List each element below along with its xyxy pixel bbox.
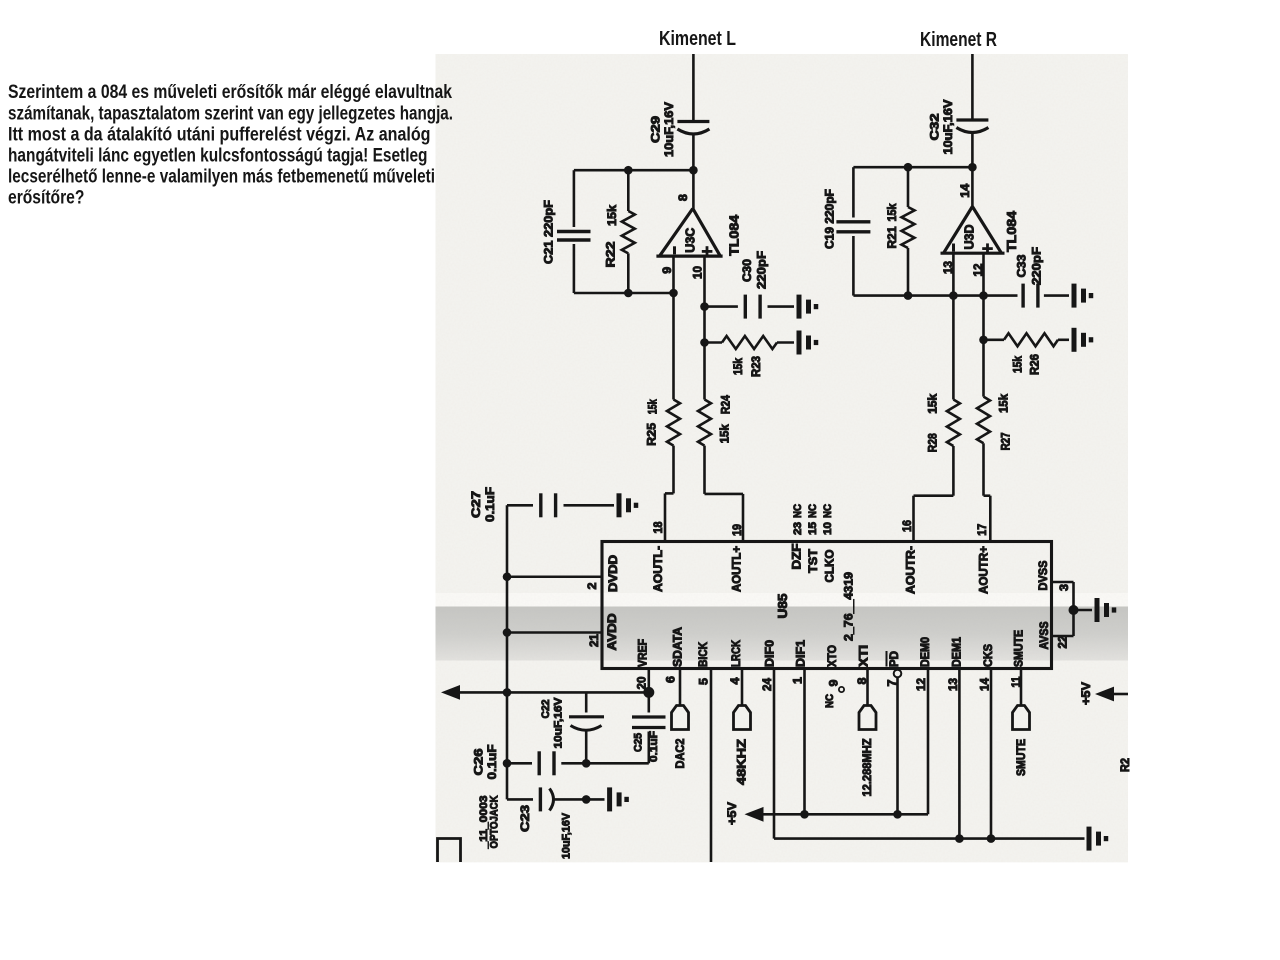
- svg-text:XTI: XTI: [859, 645, 871, 667]
- svg-text:15k: 15k: [926, 393, 940, 413]
- svg-text:+5V: +5V: [1079, 682, 1093, 705]
- svg-text:R26: R26: [1027, 354, 1041, 375]
- svg-text:24: 24: [760, 678, 774, 691]
- svg-text:TL084: TL084: [727, 214, 742, 256]
- svg-text:AVSS: AVSS: [1039, 621, 1051, 649]
- svg-text:12: 12: [914, 678, 928, 691]
- svg-text:C19 220pF: C19 220pF: [822, 189, 836, 249]
- svg-text:R23: R23: [749, 356, 763, 377]
- svg-text:AOUTR-: AOUTR-: [905, 546, 917, 594]
- svg-text:U85: U85: [776, 593, 790, 618]
- svg-text:_11_0003: _11_0003: [478, 796, 490, 850]
- svg-text:TST: TST: [808, 549, 820, 573]
- svg-text:0.1uF: 0.1uF: [485, 745, 499, 780]
- svg-text:DVDD: DVDD: [608, 555, 620, 592]
- svg-text:15k: 15k: [885, 203, 899, 221]
- svg-text:0.1uF: 0.1uF: [483, 487, 497, 522]
- svg-text:Kimenet L: Kimenet L: [659, 28, 736, 50]
- svg-text:220pF: 220pF: [754, 251, 768, 289]
- svg-text:10uF,16V: 10uF,16V: [662, 102, 676, 157]
- svg-text:15: 15: [807, 522, 819, 535]
- svg-text:21: 21: [587, 634, 601, 647]
- svg-text:10: 10: [690, 266, 704, 279]
- svg-text:9: 9: [826, 679, 840, 686]
- svg-text:C22: C22: [540, 700, 552, 719]
- svg-text:6: 6: [663, 676, 677, 683]
- svg-text:DEM1: DEM1: [952, 636, 964, 667]
- svg-text:VREF: VREF: [638, 639, 650, 667]
- svg-text:DIF1: DIF1: [796, 639, 808, 667]
- svg-text:lecserélhető lenne-e valamilye: lecserélhető lenne-e valamilyen más fetb…: [8, 167, 435, 188]
- svg-text:20: 20: [634, 676, 648, 689]
- svg-text:erősítőre?: erősítőre?: [8, 188, 84, 209]
- svg-text:15k: 15k: [605, 205, 619, 226]
- svg-text:OPTOJACK: OPTOJACK: [489, 795, 501, 848]
- svg-text:2: 2: [585, 582, 599, 589]
- svg-text:23: 23: [792, 522, 804, 535]
- svg-text:C32: C32: [927, 113, 941, 140]
- svg-text:SMUTE: SMUTE: [1014, 630, 1026, 667]
- svg-text:TL084: TL084: [1004, 210, 1019, 252]
- svg-text:19: 19: [730, 524, 744, 536]
- svg-text:3: 3: [1057, 584, 1071, 591]
- svg-text:R25: R25: [644, 423, 658, 446]
- svg-text:R28: R28: [926, 433, 940, 452]
- svg-text:PD: PD: [889, 651, 901, 667]
- svg-text:SDATA: SDATA: [673, 627, 685, 667]
- svg-text:10uF,16V: 10uF,16V: [553, 697, 565, 749]
- svg-text:CLKO: CLKO: [825, 549, 837, 582]
- svg-text:220pF: 220pF: [1029, 247, 1043, 285]
- svg-text:14: 14: [958, 183, 972, 197]
- svg-text:C30: C30: [740, 259, 754, 282]
- svg-text:NC: NC: [822, 504, 834, 518]
- svg-text:5: 5: [696, 678, 710, 685]
- svg-text:9: 9: [660, 266, 674, 273]
- svg-text:0.1uF: 0.1uF: [648, 731, 660, 762]
- svg-text:15k: 15k: [731, 358, 745, 375]
- svg-text:15k: 15k: [645, 399, 659, 414]
- svg-text:Szerintem a 084 es műveleti er: Szerintem a 084 es műveleti erősítők már…: [8, 82, 452, 103]
- svg-text:8: 8: [676, 194, 690, 201]
- svg-text:14: 14: [977, 678, 991, 691]
- svg-text:Itt most a da átalakító utáni: Itt most a da átalakító utáni pufferelés…: [8, 125, 431, 146]
- svg-text:C23: C23: [518, 805, 532, 832]
- svg-text:15k: 15k: [996, 394, 1010, 413]
- svg-text:C25: C25: [633, 733, 645, 752]
- svg-text:AOUTR+: AOUTR+: [978, 546, 990, 594]
- svg-text:10uF,16V: 10uF,16V: [560, 812, 572, 859]
- svg-text:10uF,16V: 10uF,16V: [941, 100, 955, 155]
- svg-text:DIF0: DIF0: [765, 640, 777, 667]
- svg-text:13: 13: [946, 678, 960, 691]
- svg-text:LRCK: LRCK: [731, 639, 743, 667]
- svg-text:16: 16: [900, 520, 914, 532]
- svg-text:U3D: U3D: [962, 225, 977, 250]
- svg-text:C26: C26: [471, 748, 485, 775]
- svg-text:15k: 15k: [1010, 356, 1024, 373]
- svg-text:C33: C33: [1014, 254, 1028, 277]
- svg-text:NC: NC: [792, 504, 804, 518]
- svg-text:+5V: +5V: [725, 802, 739, 825]
- svg-text:NC: NC: [824, 694, 836, 708]
- svg-text:BICK: BICK: [698, 641, 710, 667]
- svg-text:DZF: DZF: [792, 544, 804, 570]
- svg-text:17: 17: [975, 524, 989, 536]
- svg-text:15k: 15k: [717, 424, 731, 443]
- svg-text:1: 1: [790, 677, 804, 684]
- svg-text:R24: R24: [719, 395, 733, 414]
- svg-text:2_76__4319: 2_76__4319: [844, 572, 856, 641]
- svg-text:AVDD: AVDD: [607, 614, 619, 651]
- svg-text:hangátviteli lánc egyetlen kul: hangátviteli lánc egyetlen kulcsfontossá…: [8, 146, 428, 167]
- svg-text:DVSS: DVSS: [1038, 560, 1050, 590]
- svg-text:SMUTE: SMUTE: [1014, 739, 1028, 776]
- svg-text:számítanak, tapasztalatom szer: számítanak, tapasztalatom szerint van eg…: [8, 104, 453, 125]
- svg-text:U3C: U3C: [683, 227, 698, 253]
- svg-text:R2: R2: [1118, 758, 1132, 772]
- svg-text:NC: NC: [807, 504, 819, 518]
- svg-text:AOUTL+: AOUTL+: [731, 546, 743, 592]
- svg-text:18: 18: [651, 521, 665, 533]
- svg-text:XTO: XTO: [827, 645, 839, 667]
- svg-text:12.288MHZ: 12.288MHZ: [860, 739, 874, 797]
- svg-text:R22: R22: [603, 241, 617, 267]
- svg-text:R21: R21: [885, 226, 899, 248]
- svg-text:C27: C27: [469, 491, 483, 518]
- svg-text:C21 220pF: C21 220pF: [541, 200, 555, 264]
- svg-text:Kimenet R: Kimenet R: [920, 29, 997, 51]
- svg-text:AOUTL-: AOUTL-: [653, 546, 665, 592]
- svg-text:DAC2: DAC2: [673, 738, 687, 768]
- svg-text:DEM0: DEM0: [920, 637, 932, 667]
- svg-text:R27: R27: [999, 432, 1013, 450]
- svg-text:10: 10: [822, 522, 834, 535]
- svg-text:C29: C29: [648, 116, 662, 143]
- svg-text:48KHZ: 48KHZ: [734, 739, 748, 785]
- svg-text:CKS: CKS: [983, 644, 995, 667]
- svg-text:4: 4: [728, 677, 742, 684]
